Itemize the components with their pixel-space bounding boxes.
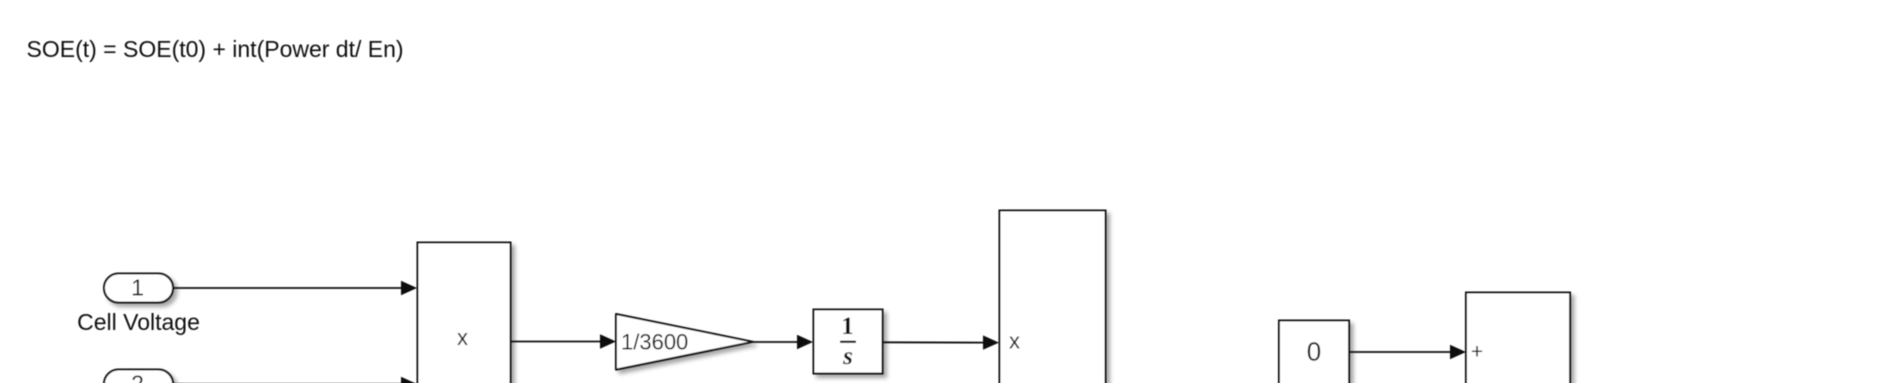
svg-text:x: x (1009, 329, 1020, 354)
svg-text:1/3600: 1/3600 (621, 330, 688, 355)
svg-text:s: s (842, 343, 853, 370)
svg-text:2: 2 (131, 371, 144, 383)
svg-text:1: 1 (841, 313, 854, 340)
svg-text:0: 0 (1307, 337, 1321, 367)
svg-text:+: + (1471, 341, 1483, 364)
svg-text:Cell Voltage: Cell Voltage (77, 309, 200, 335)
svg-text:x: x (457, 325, 468, 350)
svg-text:1: 1 (131, 275, 144, 301)
svg-text:SOE(t) = SOE(t0) + int(Power d: SOE(t) = SOE(t0) + int(Power dt/ En) (27, 36, 404, 62)
